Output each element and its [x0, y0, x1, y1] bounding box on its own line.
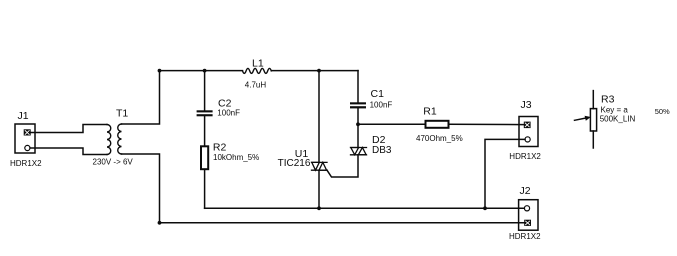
transformer T1 [107, 124, 122, 155]
svg-text:T1: T1 [116, 108, 128, 120]
wire rail B [160, 222, 525, 224]
svg-text:TIC216: TIC216 [278, 158, 311, 169]
potentiometer R3 [575, 91, 597, 148]
wire R1 left [358, 123, 426, 125]
svg-text:C1: C1 [371, 88, 385, 100]
svg-text:R1: R1 [423, 105, 437, 117]
svg-text:50%: 50% [655, 107, 670, 116]
node junction U1 top [317, 69, 321, 73]
svg-text:R2: R2 [213, 141, 227, 153]
svg-text:L1: L1 [252, 57, 264, 69]
svg-text:4.7uH: 4.7uH [245, 80, 267, 89]
resistor R1 [426, 121, 449, 128]
wire R2 bottom to rail A [204, 169, 206, 208]
wire U1 bottom to rail A [318, 170, 320, 208]
svg-text:R3: R3 [601, 93, 615, 105]
svg-text:J3: J3 [521, 99, 532, 111]
capacitor C2 [197, 110, 213, 116]
svg-text:470Ohm_5%: 470Ohm_5% [416, 134, 463, 143]
wire J1 pin2 to T1 primary bottom [30, 148, 107, 155]
svg-text:10kOhm_5%: 10kOhm_5% [213, 153, 259, 162]
connector J2 [519, 200, 538, 231]
svg-text:100nF: 100nF [217, 109, 240, 118]
svg-text:J1: J1 [18, 110, 29, 122]
node junction C2 branch [203, 69, 207, 73]
triac U1 [312, 162, 328, 170]
svg-text:DB3: DB3 [372, 145, 392, 156]
diac D2 [351, 148, 367, 155]
wire C2 to R2 [204, 116, 206, 146]
node junction J3 rail A [483, 206, 487, 210]
connector J3 [519, 117, 538, 147]
wire C2 branch upper [204, 71, 206, 111]
node junction R1 branch [356, 122, 360, 126]
node corner junction top-left [158, 69, 162, 73]
connector J1 [15, 124, 35, 153]
wire top rail left segment [160, 70, 243, 72]
svg-text:HDR1X2: HDR1X2 [10, 159, 42, 168]
wire J1 pin1 to T1 primary top [30, 125, 107, 133]
wire rail A [205, 207, 525, 209]
svg-text:J2: J2 [520, 185, 531, 197]
wire T1 secondary bottom to rail B [122, 154, 160, 223]
node junction U1 rail A [317, 206, 321, 210]
wire U1 gate to D2 [327, 155, 358, 177]
resistor R2 [201, 146, 208, 169]
svg-text:230V -> 6V: 230V -> 6V [93, 157, 134, 166]
wire T1 secondary top to top rail [122, 71, 160, 124]
svg-text:Key = a: Key = a [601, 105, 629, 114]
wire J3 pin2 down to rail A [485, 139, 525, 208]
wire C1 branch upper [357, 71, 359, 103]
node corner junction bottom-left [158, 221, 162, 225]
inductor L1 [243, 68, 272, 73]
capacitor C1 [350, 102, 366, 108]
wire R1 right to J3 [449, 123, 525, 125]
svg-text:HDR1X2: HDR1X2 [509, 152, 541, 161]
wire C1 to D2 [357, 108, 359, 147]
svg-text:HDR1X2: HDR1X2 [509, 232, 541, 241]
wire top rail right segment [271, 70, 358, 72]
wire U1 branch upper [318, 71, 320, 163]
svg-text:500K_LIN: 500K_LIN [600, 114, 636, 123]
svg-text:100nF: 100nF [370, 101, 393, 110]
